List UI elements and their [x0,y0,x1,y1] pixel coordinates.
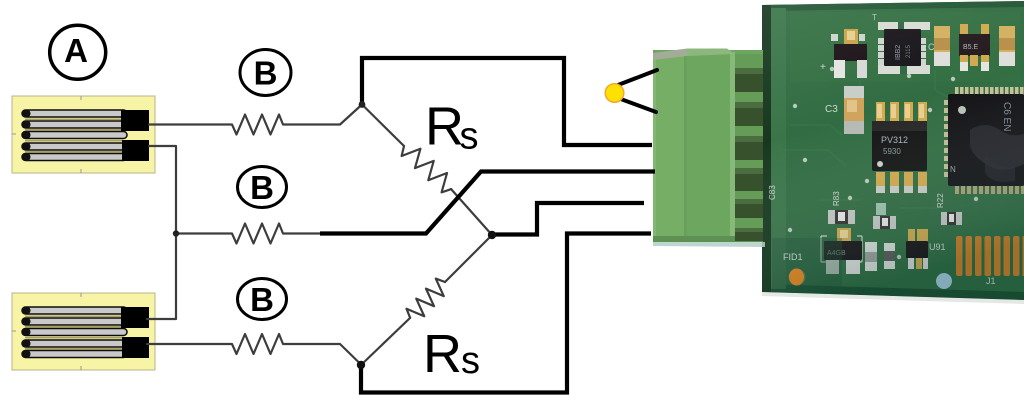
svg-text:s: s [461,340,480,382]
svg-text:B: B [250,169,274,206]
svg-text:R: R [425,97,464,157]
svg-text:B: B [250,281,274,318]
svg-text:s: s [460,116,479,158]
svg-text:A: A [64,32,88,69]
svg-text:B: B [254,55,278,92]
svg-text:R: R [423,324,462,384]
